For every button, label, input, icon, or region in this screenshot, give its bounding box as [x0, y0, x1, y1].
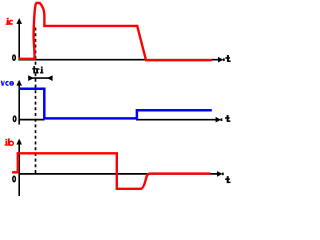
ic vertical axis	[16, 18, 22, 60]
t label (ic axis)	[225, 55, 230, 62]
ic horizontal axis (t)	[18, 57, 224, 63]
ic label	[6, 18, 13, 25]
t label (ib axis)	[225, 176, 230, 183]
vce waveform	[19, 89, 212, 119]
ib vertical axis	[16, 139, 22, 196]
tri label	[32, 66, 44, 74]
vce horizontal axis right segment (t)	[136, 117, 222, 123]
vce vertical axis	[16, 80, 22, 125]
0 label (ic origin)	[13, 55, 16, 60]
ib label	[5, 138, 14, 145]
vce horizontal axis left segment	[18, 119, 44, 121]
vce label	[1, 81, 14, 86]
0 label (ib origin)	[13, 176, 16, 181]
ic waveform	[19, 3, 212, 60]
t label (vce axis)	[225, 115, 230, 122]
0 label (vce origin)	[13, 116, 16, 121]
ib horizontal axis (t)	[18, 171, 223, 177]
tri measurement arrow	[28, 75, 52, 81]
ib waveform	[12, 153, 210, 189]
dashed timing line (turn-on instant)	[35, 28, 37, 174]
